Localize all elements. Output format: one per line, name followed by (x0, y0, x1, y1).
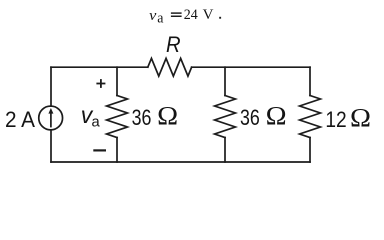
polarity minus sign (93, 149, 106, 151)
resistor 36ohm #1 (vertical zigzag) (107, 96, 128, 138)
label 36 ohm #2 (240, 102, 287, 131)
resistor 12ohm (vertical zigzag) (300, 96, 321, 138)
equals sign (171, 13, 182, 16)
period (219, 17, 221, 19)
current source I1 circle (39, 106, 63, 130)
svg-text:Ω: Ω (266, 102, 287, 131)
svg-text:v: v (149, 8, 157, 24)
resistor 36ohm #2 (vertical zigzag) (215, 96, 236, 138)
label v_a (node voltage) (81, 102, 101, 131)
svg-text:2 A: 2 A (5, 107, 35, 132)
wire branch 1 upper (116, 67, 118, 95)
current source arrow (48, 108, 53, 127)
wire branch 1 lower (116, 138, 118, 163)
wire right lower (309, 138, 311, 163)
label equation v_a = 24 V. (149, 8, 164, 27)
wire left upper (source to top wire) (50, 67, 52, 106)
svg-text:24: 24 (184, 7, 198, 23)
wire top-left segment (51, 66, 148, 68)
wire branch 2 lower (224, 138, 226, 163)
svg-text:R: R (166, 32, 181, 57)
resistor R (horizontal zigzag) (148, 58, 192, 76)
wire left lower (source to bottom wire) (50, 130, 52, 162)
wire bottom (51, 161, 310, 163)
label 36 ohm #1 (132, 102, 179, 131)
label 12 ohm (325, 104, 371, 133)
svg-text:12: 12 (325, 107, 346, 132)
polarity plus sign (96, 79, 105, 88)
svg-text:V: V (203, 7, 214, 23)
svg-text:a: a (157, 11, 164, 27)
svg-text:36: 36 (240, 105, 260, 130)
wire right upper (309, 67, 311, 95)
wire top-right segment (192, 66, 310, 68)
svg-text:36: 36 (132, 105, 152, 130)
svg-text:Ω: Ω (157, 102, 178, 131)
svg-text:a: a (92, 115, 101, 131)
svg-text:Ω: Ω (350, 104, 371, 133)
wire branch 2 upper (224, 67, 226, 95)
